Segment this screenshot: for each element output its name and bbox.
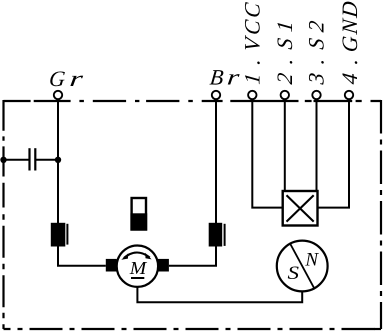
junction dot on housing (0, 157, 6, 163)
magnet rotor circle N/S (277, 241, 328, 292)
wire S1 terminal to hall sensor top (284, 100, 286, 191)
terminal 1.VCC (248, 91, 256, 99)
wire Br terminal down to choke L2 (215, 100, 217, 223)
left border (2, 100, 4, 329)
brush element above motor (half white half black) (130, 198, 147, 231)
terminal 3.S2 (312, 91, 320, 99)
choke L2 (filled rectangle) (209, 223, 223, 247)
top border (4, 100, 382, 102)
wire motor right brush to choke L2 (169, 247, 216, 266)
motor right brush block (158, 259, 169, 272)
terminal Gr (54, 91, 62, 99)
wire choke L1 to motor left brush (58, 247, 106, 266)
wire motor bottom to magnet rotor (137, 287, 302, 302)
motor left brush block (106, 259, 117, 272)
choke L1 core line (66, 224, 68, 245)
svg-text:G: G (48, 66, 67, 91)
wire GND terminal to hall sensor right (318, 100, 350, 208)
wire VCC terminal to hall sensor left (252, 100, 282, 208)
shield housing frame (dash-dot enclosure) (4, 100, 382, 329)
terminal 4.GND (345, 91, 353, 99)
capacitor C1 plates (30, 148, 36, 170)
choke L2 core line (224, 224, 226, 246)
wire capacitor right plate to Gr line (35, 159, 58, 161)
label 2.S1 (rotated) (272, 20, 297, 86)
wire S2 terminal to hall sensor top (316, 100, 318, 191)
motor M1 circle (117, 246, 158, 287)
label 4.GND (rotated) (337, 0, 362, 85)
motor label M underlined (129, 258, 148, 278)
motor rotation arc arrow (121, 253, 151, 260)
wire housing to capacitor left plate (4, 159, 30, 161)
choke L1 (filled rectangle) (51, 223, 66, 247)
bottom-right corner stub (374, 328, 381, 330)
svg-text:M: M (129, 258, 148, 278)
label Br (209, 65, 241, 90)
terminal Br (212, 91, 220, 99)
right border (380, 100, 382, 329)
terminal 2.S1 (281, 91, 289, 99)
junction dot on Gr line (55, 157, 61, 163)
svg-text:S: S (288, 263, 300, 284)
label Gr (48, 66, 85, 91)
svg-text:B: B (209, 65, 225, 90)
bottom border (4, 328, 382, 330)
wire Gr terminal down to choke L1 (57, 100, 59, 223)
label 1.VCC (rotated) (240, 1, 265, 85)
hall sensor U1 (crossed box) (283, 191, 318, 226)
svg-text:N: N (304, 250, 319, 271)
label 3.S2 (rotated) (303, 20, 328, 87)
